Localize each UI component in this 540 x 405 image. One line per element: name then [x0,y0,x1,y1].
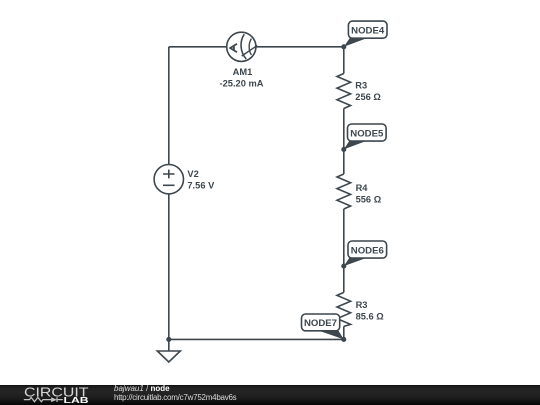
footer bar [0,385,540,405]
ammeter needle [242,46,258,57]
svg-text:V2: V2 [187,169,198,179]
junction dot ground [166,337,171,342]
wire right vertical R3b to bottom [343,326,345,339]
resistor R3 zigzag [337,74,351,109]
wire top horizontal left of ammeter [169,46,227,48]
node NODE4 label box [348,21,387,38]
svg-text:NODE7: NODE7 [304,318,337,329]
svg-text:LAB: LAB [64,396,89,404]
svg-text:7.56 V: 7.56 V [187,180,215,190]
voltage source V2 circle [154,165,183,194]
circuitlab logo [0,383,110,404]
node NODE7 label box [302,314,340,331]
ground triangle [157,351,180,362]
resistor R3b zigzag [337,292,351,326]
svg-text:AM1: AM1 [233,67,253,77]
ammeter AM1 circle [227,32,256,61]
ground stub [168,339,170,351]
wire right vertical R4 to R3b [343,209,345,292]
svg-text:85.6 Ω: 85.6 Ω [356,312,385,322]
footer title text [114,385,236,402]
wire top horizontal right of ammeter [256,46,344,48]
V2 plus sign [163,170,175,179]
junction dot node4 [341,44,346,49]
node NODE5 label box [348,124,387,141]
node NODE7 flag tail [319,331,344,340]
node NODE6 label box [348,241,387,258]
svg-text:256 Ω: 256 Ω [355,92,381,102]
junction dot node6 [341,264,346,269]
junction dot node7 [341,337,346,342]
ammeter dial arc inner [249,39,251,55]
svg-text:-25.20 mA: -25.20 mA [220,78,264,88]
ammeter dial arc outer [241,34,246,59]
svg-text:NODE4: NODE4 [351,25,385,36]
node NODE5 flag tail [344,141,367,150]
svg-text:NODE5: NODE5 [350,128,384,139]
svg-text:R3: R3 [355,80,367,90]
wire right vertical node4 to R3 [343,47,345,74]
node NODE6 flag tail [344,258,367,266]
node NODE4 flag tail [344,38,368,47]
wire bottom horizontal [169,338,344,340]
wire left vertical above V2 [168,47,170,165]
svg-text:R4: R4 [356,183,369,193]
V2 minus sign [163,184,175,186]
svg-text:NODE6: NODE6 [351,245,384,256]
wire left vertical below V2 [168,194,170,340]
resistor R4 zigzag [337,174,351,209]
wire right vertical R3 to R4 [343,109,345,175]
svg-text:R3: R3 [356,300,368,310]
svg-text:556 Ω: 556 Ω [356,195,382,205]
junction dot node5 [341,147,346,152]
ammeter letter A [230,44,237,53]
